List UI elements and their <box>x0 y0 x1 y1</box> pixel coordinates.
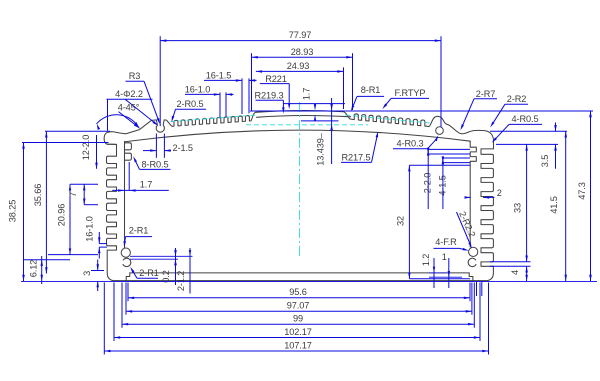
fin tip reference arc right <box>345 115 432 123</box>
svg-text:38.25: 38.25 <box>8 200 18 223</box>
svg-text:1.7: 1.7 <box>140 179 152 189</box>
dim 24.93 <box>256 70 344 72</box>
svg-text:2-R2: 2-R2 <box>507 94 527 104</box>
svg-text:77.97: 77.97 <box>289 30 312 40</box>
svg-text:2-1.2: 2-1.2 <box>176 271 186 291</box>
svg-text:35.66: 35.66 <box>33 184 43 207</box>
profile right bottom screw boss <box>469 247 478 256</box>
svg-text:F.RTYP: F.RTYP <box>395 88 426 98</box>
svg-text:R219.3: R219.3 <box>254 91 283 101</box>
svg-text:33: 33 <box>513 203 523 213</box>
svg-text:4: 4 <box>510 270 520 275</box>
svg-text:24.93: 24.93 <box>287 61 310 71</box>
svg-text:2-R1: 2-R1 <box>129 226 149 236</box>
svg-text:13.439–: 13.439– <box>316 132 326 166</box>
profile crown inner line <box>257 115 351 117</box>
profile right wall inner face with slots <box>470 141 476 247</box>
bottom extension line <box>21 281 597 283</box>
svg-text:1: 1 <box>442 252 447 262</box>
extension stubs bottom right <box>476 282 478 296</box>
svg-text:12-2.0: 12-2.0 <box>81 135 91 160</box>
svg-text:2-2.0: 2-2.0 <box>423 173 433 193</box>
svg-text:8-R1: 8-R1 <box>361 85 381 95</box>
profile left wall inner face <box>124 142 126 248</box>
svg-text:28.93: 28.93 <box>291 47 314 57</box>
svg-text:107.17: 107.17 <box>284 340 312 350</box>
profile roof underside arc R217.5 <box>125 130 471 142</box>
crown chord reference line <box>246 124 368 126</box>
svg-text:32: 32 <box>396 216 406 226</box>
svg-text:95.6: 95.6 <box>289 287 306 297</box>
svg-text:8-R0.5: 8-R0.5 <box>142 159 169 169</box>
profile flange underside <box>107 143 117 145</box>
svg-text:7: 7 <box>68 192 78 197</box>
svg-text:4-R0.5: 4-R0.5 <box>512 114 539 124</box>
dim 77.97 <box>160 40 441 42</box>
svg-text:16-1.0: 16-1.0 <box>185 84 210 94</box>
svg-text:20.96: 20.96 <box>56 204 66 227</box>
profile left inner tab upper <box>125 143 132 150</box>
svg-text:4-45°: 4-45° <box>118 102 140 112</box>
svg-text:R217.5: R217.5 <box>341 152 370 162</box>
svg-text:4-Φ2.2: 4-Φ2.2 <box>115 89 143 99</box>
dim 99 <box>122 323 474 325</box>
profile right floor step <box>469 273 473 280</box>
svg-text:3.5: 3.5 <box>540 155 550 167</box>
svg-text:1.7: 1.7 <box>302 88 312 100</box>
svg-text:41.5: 41.5 <box>549 196 559 213</box>
svg-text:R3: R3 <box>129 71 141 81</box>
svg-text:99: 99 <box>293 314 303 324</box>
svg-text:2-1.5: 2-1.5 <box>173 143 193 153</box>
svg-text:2-R1: 2-R1 <box>139 268 159 278</box>
dim 95.6 <box>128 297 470 299</box>
svg-text:6.12: 6.12 <box>28 260 38 277</box>
profile left bottom hook detail <box>123 258 131 266</box>
profile left bottom screw boss 2-R1 <box>121 248 130 257</box>
svg-text:97.07: 97.07 <box>287 301 310 311</box>
svg-text:102.17: 102.17 <box>284 327 312 337</box>
profile left floor step <box>126 273 130 280</box>
dim 107.17 <box>104 350 488 352</box>
svg-text:1.2: 1.2 <box>421 254 431 266</box>
svg-text:3: 3 <box>82 271 92 276</box>
profile right bottom hook detail <box>468 258 476 266</box>
svg-text:4-R0.3: 4-R0.3 <box>397 139 424 149</box>
svg-text:2-R0.5: 2-R0.5 <box>177 99 204 109</box>
profile outer outline with heatsink fins <box>104 111 493 281</box>
svg-text:16-1.5: 16-1.5 <box>206 71 231 81</box>
svg-text:2-R7: 2-R7 <box>476 89 496 99</box>
centerline vertical <box>299 102 301 257</box>
dim 28.93 <box>252 56 353 58</box>
svg-text:4-F.R: 4-F.R <box>435 237 457 247</box>
dim 102.17 <box>114 337 480 339</box>
svg-text:2: 2 <box>497 188 502 198</box>
profile left inner tab lower <box>125 153 132 160</box>
dim 97.07 <box>126 310 472 312</box>
svg-text:0.2: 0.2 <box>161 270 171 282</box>
profile right top screw boss hole <box>436 127 444 135</box>
fin tip reference arc left <box>171 115 256 122</box>
svg-text:R221: R221 <box>265 74 287 84</box>
svg-text:47.3: 47.3 <box>577 182 587 199</box>
svg-text:16-1.0: 16-1.0 <box>85 216 95 241</box>
profile floor inner surface <box>130 272 469 274</box>
